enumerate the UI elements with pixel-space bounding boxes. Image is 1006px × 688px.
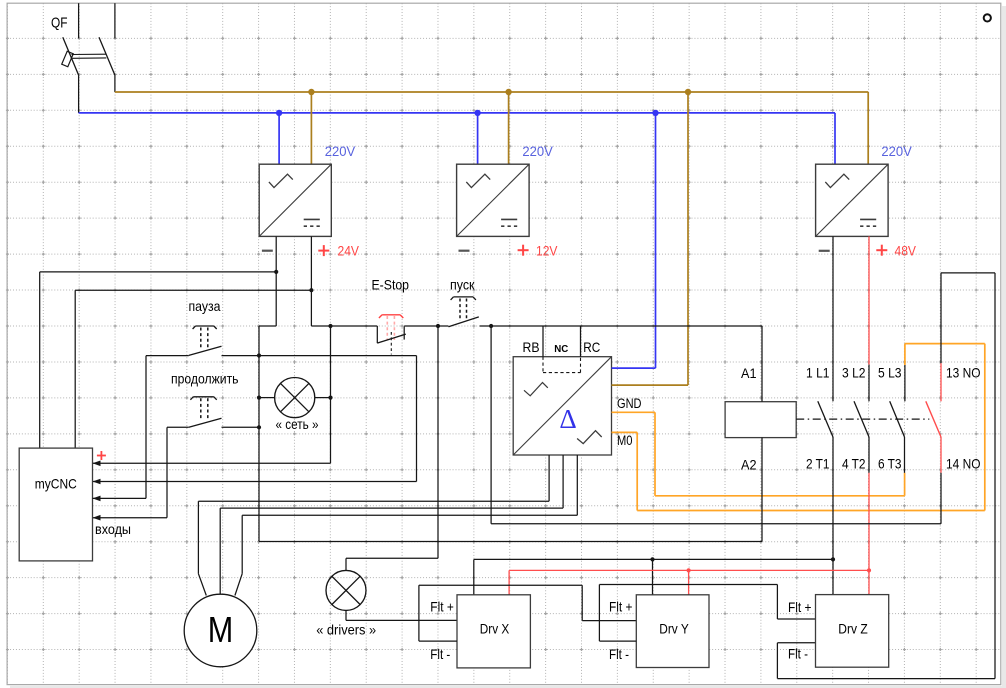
- svg-text:продолжить: продолжить: [171, 371, 239, 387]
- wire contact 5L3 top lead: [904, 365, 906, 401]
- wire blue drop to VFD: [655, 113, 657, 368]
- node junction DrvZ supply: [831, 557, 835, 561]
- svg-text:13 NO: 13 NO: [946, 365, 981, 381]
- label 13 NO: [946, 365, 981, 381]
- pushbutton pause NO contact blade: [189, 346, 222, 355]
- power supply U1 24V box: [259, 164, 331, 236]
- pushbutton pause label: [189, 298, 221, 314]
- pushbutton E-Stop mushroom cap: [379, 315, 403, 318]
- pushbutton pusk NO contact blade: [449, 317, 479, 327]
- wire coil A1 lead: [761, 326, 763, 402]
- wire M0 orange to contact 5L3: [612, 344, 985, 511]
- svg-text:RC: RC: [583, 339, 600, 355]
- wire myCNC minus supply horizontal: [40, 271, 277, 273]
- contactor K1 contact pole 2 blade: [854, 401, 869, 437]
- wire VFD blue 220V input: [612, 367, 656, 369]
- wire QF pole 2 top lead: [114, 3, 116, 38]
- wire lamp HL1 right lead: [315, 397, 331, 399]
- wire DrvY 48V drop red: [688, 570, 690, 594]
- driver Drv Z box: [816, 595, 889, 668]
- svg-text:M0: M0: [617, 433, 633, 448]
- label myCNC plus input: [97, 451, 106, 460]
- wire myCNC plus supply horizontal: [75, 289, 311, 291]
- wire VFD terminal W to motor: [235, 455, 577, 596]
- label 14 NO: [946, 456, 981, 472]
- wire QF pole 1 top lead: [78, 3, 80, 38]
- wire olive drop to PSU2: [508, 92, 510, 164]
- svg-text:220V: 220V: [325, 143, 356, 159]
- wire DrvY Flt- to DrvZ Flt+: [599, 585, 815, 642]
- wire 220V line L olive bus: [115, 91, 868, 93]
- wire GND orange to contact 6T3: [612, 412, 905, 496]
- pushbutton pusk label: [450, 277, 475, 293]
- wire E-Stop to pusk: [404, 325, 448, 327]
- svg-text:Drv X: Drv X: [480, 621, 510, 637]
- wire VFD olive 220V input: [612, 384, 689, 386]
- wire myCNC input 3 from pause: [93, 497, 147, 499]
- wire pause left contact: [146, 356, 189, 499]
- circuit breaker QF pole 1 blade: [63, 37, 79, 75]
- svg-text:A2: A2: [741, 456, 757, 472]
- wire 220V line N blue bus: [79, 112, 835, 114]
- wire 24V supply rail to drivers: [474, 559, 833, 594]
- wire DrvX Flt- to DrvY Flt+: [419, 585, 636, 641]
- node olive junction at VFD drop: [685, 89, 691, 95]
- svg-text:12V: 12V: [536, 243, 558, 259]
- pushbutton continue NO contact blade: [189, 418, 222, 427]
- power supply U2 12V box: [457, 164, 529, 236]
- svg-text:Flt -: Flt -: [788, 646, 808, 662]
- label 1 L1: [806, 365, 830, 381]
- node junction lamp rail: [328, 396, 332, 400]
- svg-text:Drv Y: Drv Y: [659, 621, 689, 637]
- pushbutton continue label: [171, 371, 239, 387]
- wire RB riser: [542, 326, 544, 357]
- svg-text:M: M: [208, 609, 234, 650]
- label PSU1 minus terminal: [262, 250, 273, 252]
- wire RC riser: [580, 326, 582, 357]
- pushbutton pause actuator dashes: [201, 328, 208, 349]
- contactor coil K1: [725, 402, 796, 438]
- node junction DrvZ 48V red: [867, 568, 871, 572]
- node junction drivers-lamp tap: [436, 324, 440, 328]
- node blue junction at VFD drop: [652, 110, 658, 116]
- wire 48V red down to Drv Z: [868, 473, 870, 595]
- svg-text:5 L3: 5 L3: [878, 365, 902, 381]
- svg-text:2 T1: 2 T1: [806, 456, 830, 472]
- label M0: [617, 433, 633, 448]
- svg-text:входы: входы: [95, 521, 131, 537]
- svg-text:« сеть »: « сеть »: [276, 416, 319, 432]
- svg-text:6 T3: 6 T3: [878, 456, 902, 472]
- wire pause right contact to myCNC: [93, 356, 417, 482]
- wire drivers lamp to DrvX Flt+: [346, 610, 457, 620]
- wire lamp HL1 left lead: [259, 397, 275, 399]
- svg-text:220V: 220V: [881, 143, 912, 159]
- label 5 L3: [878, 365, 902, 381]
- myCNC input arrow 4: [93, 515, 101, 521]
- controller myCNC box: [19, 448, 92, 561]
- label 6 T3: [878, 456, 902, 472]
- wire contact 6T3 bottom lead: [904, 437, 906, 473]
- pushbutton pause actuator cap: [193, 326, 217, 329]
- wire QF pole 1 bottom lead: [78, 75, 80, 113]
- myCNC input arrow 1: [93, 461, 101, 467]
- svg-text:1 L1: 1 L1: [806, 365, 830, 381]
- wire aux contact 14NO return: [491, 326, 941, 524]
- wire PSU1 minus output down: [275, 236, 277, 326]
- svg-text:Flt +: Flt +: [430, 599, 454, 615]
- svg-text:Flt +: Flt +: [788, 599, 812, 615]
- label RC: [583, 339, 600, 355]
- wire aux contact 13NO red lead: [940, 363, 942, 401]
- wire blue bus drop to PSU3: [834, 113, 836, 164]
- label NC: [554, 343, 568, 355]
- label vhody inputs: [95, 521, 131, 537]
- label DrvY Flt plus: [609, 599, 633, 615]
- wire myCNC minus supply vertical: [39, 272, 41, 448]
- lamp HL1 set: [275, 378, 315, 418]
- wire PSU3 plus output red to contact 3L2: [868, 236, 870, 364]
- wire coil A2 lead: [761, 438, 763, 542]
- label A1: [741, 365, 757, 381]
- label 220V at PSU1: [325, 143, 356, 159]
- label 48V: [895, 243, 917, 259]
- svg-text:пауза: пауза: [189, 298, 221, 314]
- label 3 L2: [842, 365, 866, 381]
- svg-text:Flt -: Flt -: [609, 646, 629, 662]
- label PSU2 minus terminal: [459, 250, 470, 252]
- wire continue right contact: [222, 426, 260, 428]
- label 24V: [338, 243, 360, 259]
- label DrvX Flt minus: [430, 646, 450, 662]
- wire aux contact 14NO red lead: [940, 437, 942, 473]
- decoration small circle top right: [984, 14, 991, 21]
- wire pusk to contactor coil A1: [480, 325, 762, 327]
- pushbutton E-Stop label: [372, 277, 410, 293]
- svg-text:QF: QF: [51, 16, 68, 32]
- label A2: [741, 456, 757, 472]
- svg-text:пуск: пуск: [450, 277, 475, 293]
- contactor K1 contact pole 1 blade: [818, 401, 833, 437]
- wire QF pole 2 bottom lead: [114, 75, 116, 92]
- node junction DrvY 48V tap red: [687, 568, 691, 572]
- wire drivers lamp feed from bus: [346, 326, 438, 570]
- relay VFD U4 box: [513, 357, 611, 455]
- motor M1: [184, 594, 257, 667]
- svg-text:myCNC: myCNC: [35, 476, 77, 492]
- node junction DrvY supply tap: [650, 557, 654, 561]
- wire VFD terminal U to motor: [198, 455, 549, 596]
- pushbutton E-Stop NC contact: [377, 326, 406, 355]
- circuit breaker QF mechanical tie bar: [72, 54, 107, 58]
- pushbutton pusk actuator cap: [451, 297, 476, 300]
- svg-text:Flt +: Flt +: [609, 599, 633, 615]
- label 4 T2: [842, 456, 866, 472]
- label DrvX Flt plus: [430, 599, 454, 615]
- wire aux contact 13NO top loop: [777, 273, 995, 679]
- wire PSU1 plus output down: [310, 236, 312, 326]
- label PSU1 plus terminal: [318, 245, 329, 256]
- svg-text:48V: 48V: [895, 243, 917, 259]
- node junction minus rail lamp: [257, 396, 261, 400]
- wire contact 2T1 down to Drv Z: [832, 437, 834, 595]
- label drivers lamp: [316, 622, 376, 638]
- pushbutton E-Stop actuator dashes: [387, 316, 394, 340]
- pushbutton continue actuator cap: [190, 397, 216, 400]
- circuit breaker QF actuator box: [62, 51, 74, 66]
- label PSU3 plus terminal: [876, 245, 887, 256]
- label myCNC: [35, 476, 77, 492]
- label DrvZ Flt minus: [788, 646, 808, 662]
- svg-text:NC: NC: [554, 343, 568, 355]
- wire myCNC plus supply vertical: [74, 290, 76, 448]
- svg-text:GND: GND: [617, 396, 642, 411]
- node junction PSU1 minus tap: [274, 270, 278, 274]
- wire olive drop to VFD: [687, 92, 689, 385]
- label RB: [523, 339, 540, 355]
- svg-text:« drivers »: « drivers »: [316, 622, 376, 638]
- node olive junction at PSU2: [505, 89, 511, 95]
- label GND: [617, 396, 642, 411]
- driver Drv X box: [457, 595, 530, 668]
- node junction minus rail pause: [257, 353, 261, 357]
- myCNC input arrow 3: [93, 496, 101, 502]
- wire VFD terminal V to motor: [220, 455, 563, 594]
- wire +24V bus to E-Stop: [311, 325, 377, 327]
- wire minus rail vertical: [258, 326, 260, 542]
- wire PSU3 minus output to contact 1L1: [832, 236, 834, 401]
- wire olive bus drop to PSU3: [867, 92, 869, 164]
- lamp HL2 drivers: [326, 570, 366, 610]
- svg-text:A1: A1: [741, 365, 757, 381]
- svg-text:220V: 220V: [522, 143, 553, 159]
- svg-text:RB: RB: [523, 339, 540, 355]
- pushbutton pusk actuator dashes: [460, 299, 467, 322]
- label PSU3 minus terminal: [819, 250, 830, 252]
- myCNC input arrow 2: [93, 479, 101, 485]
- pushbutton continue actuator dashes: [201, 398, 208, 420]
- wire contact 4T2 bottom lead: [868, 437, 870, 473]
- driver Drv Y box: [636, 595, 709, 668]
- svg-text:14 NO: 14 NO: [946, 456, 981, 472]
- circuit breaker QF pole 2 blade: [99, 37, 115, 75]
- wire minus rail jog: [259, 325, 276, 327]
- label 12V: [536, 243, 558, 259]
- contactor mechanical linkage dash-dot: [796, 418, 929, 420]
- label Delta symbol: [559, 404, 576, 434]
- svg-text:Δ: Δ: [559, 404, 576, 434]
- contactor K1 aux contact blade red: [926, 401, 941, 437]
- wire minus rail bottom horizontal to A2: [259, 541, 762, 543]
- wire olive drop to PSU1: [310, 92, 312, 164]
- node junction lamp rail top: [328, 324, 332, 328]
- wire blue drop to PSU2: [477, 113, 479, 164]
- svg-text:Drv Z: Drv Z: [838, 621, 868, 637]
- contactor K1 contact pole 3 blade: [890, 401, 905, 437]
- svg-text:E-Stop: E-Stop: [372, 277, 410, 293]
- node junction minus rail continue: [257, 425, 261, 429]
- label set lamp: [276, 416, 319, 432]
- label 2 T1: [806, 456, 830, 472]
- node blue junction at PSU1: [276, 110, 282, 116]
- dashed NC link inside VFD: [543, 357, 581, 373]
- wire contact 3L2 top lead: [868, 365, 870, 402]
- svg-text:24V: 24V: [338, 243, 360, 259]
- circuit breaker QF label: [51, 16, 68, 32]
- node olive junction at PSU1: [308, 89, 314, 95]
- wire 48V red rail to drivers: [509, 570, 869, 594]
- svg-text:3 L2: 3 L2: [842, 365, 866, 381]
- label DrvY Flt minus: [609, 646, 629, 662]
- svg-text:4 T2: 4 T2: [842, 456, 866, 472]
- power supply U3 48V box: [816, 164, 889, 236]
- wire blue drop to PSU1: [278, 113, 280, 164]
- label 220V at PSU3: [881, 143, 912, 159]
- wire lamp rail from +24 bus: [93, 326, 331, 463]
- wire continue left contact to myCNC: [93, 427, 189, 517]
- label PSU2 plus terminal: [518, 245, 529, 256]
- node junction PSU1 plus tap: [309, 288, 313, 292]
- wire DrvY supply drop: [652, 559, 654, 594]
- node junction aux return tap: [489, 324, 493, 328]
- svg-text:Flt -: Flt -: [430, 646, 450, 662]
- node blue junction at PSU2: [474, 110, 480, 116]
- label 220V at PSU2: [522, 143, 553, 159]
- label DrvZ Flt plus: [788, 599, 812, 615]
